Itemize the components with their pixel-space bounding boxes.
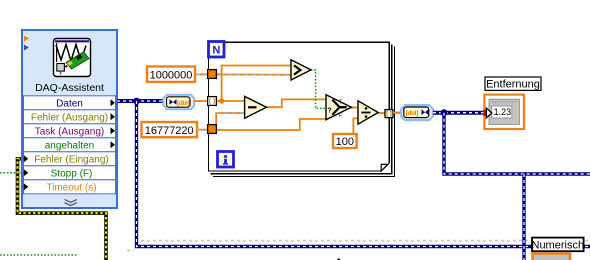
wire boolean Stopp input [0, 172, 23, 174]
Convert from Dynamic Data node [163, 95, 194, 109]
DAQ-Assistent express VI [22, 30, 117, 208]
Entfernung indicator terminal [484, 95, 524, 129]
for loop frame [209, 42, 390, 171]
Convert to Dynamic Data node [401, 105, 433, 120]
svg-text:Numerisch: Numerisch [532, 239, 585, 251]
terminal row Fehler (Eingang) [24, 152, 116, 166]
DAQ-Assistent label [35, 82, 104, 94]
wire tunnel to convert node [393, 112, 402, 114]
divide node [358, 101, 378, 124]
svg-text:Fehler (Eingang): Fehler (Eingang) [34, 155, 108, 166]
junction Daten wire [133, 98, 140, 105]
wire data to greater upper input [222, 66, 291, 102]
tunnel middle data input [208, 97, 217, 106]
svg-text:Entfernung: Entfernung [486, 79, 540, 91]
wire dynamic data branch right [444, 113, 590, 174]
svg-text:100: 100 [336, 136, 354, 148]
svg-text:N: N [212, 45, 220, 57]
terminal row Stopp (F) [24, 166, 116, 180]
wire double converter to tunnel [194, 100, 208, 102]
svg-text:?: ? [327, 107, 331, 114]
for loop count terminal N [209, 42, 225, 58]
for loop stacked sheet borders [211, 44, 395, 176]
svg-text:Stopp (F): Stopp (F) [51, 169, 93, 180]
wire subtract to select T input [266, 99, 326, 107]
select node [326, 95, 351, 120]
svg-text:16777220: 16777220 [145, 125, 194, 137]
svg-text:1000000: 1000000 [150, 70, 193, 82]
wire divide to tunnel [378, 112, 385, 114]
wire dynamic data Daten to converter [117, 99, 164, 103]
wire boolean greater to select [311, 70, 326, 108]
junction output wire [441, 109, 448, 116]
Entfernung terminal input arrow [486, 108, 491, 118]
wire boolean bottom-left [0, 254, 78, 256]
svg-text:1.23: 1.23 [494, 107, 512, 117]
terminal row Task (Ausgang) [24, 124, 116, 138]
wire dynamic data branch to Numerisch [137, 101, 590, 247]
terminal row Daten [24, 96, 116, 110]
wire tunnel to subtract lower input [216, 113, 245, 125]
wire 1000000 to greater node [195, 73, 291, 76]
svg-text:angehalten: angehalten [45, 141, 95, 152]
DAQ-Assistent icon [54, 39, 91, 77]
express VI input arrow blue [24, 45, 29, 51]
express VI expand chevron [65, 200, 77, 206]
svg-text:[dbl]: [dbl] [406, 110, 418, 117]
svg-text:[dbl]: [dbl] [177, 100, 189, 107]
wire dynamic data to Entfernung [433, 111, 484, 115]
greater than node [291, 60, 311, 80]
wire tunnel to select F input [216, 119, 326, 130]
svg-text:Task (Ausgang): Task (Ausgang) [35, 127, 104, 138]
constant 1000000 [147, 67, 195, 82]
selection ants bottom wire [127, 241, 590, 251]
for loop iteration terminal i [218, 152, 234, 168]
Numerisch label [532, 238, 585, 252]
tunnel top input [208, 70, 217, 79]
constant 100 [333, 134, 357, 148]
wire dynamic data down to Numerisch terminal [522, 174, 525, 260]
svg-text:Fehler (Ausgang): Fehler (Ausgang) [31, 113, 108, 124]
clipped object bottom edge [337, 259, 340, 260]
tunnel output right [385, 110, 393, 118]
svg-text:Timeout (s): Timeout (s) [46, 183, 96, 194]
wire 100 to divide [353, 118, 358, 134]
express VI input arrow orange [24, 36, 29, 42]
tunnel bottom input [208, 125, 217, 134]
Numerisch indicator terminal [533, 253, 570, 260]
wire select to divide [351, 107, 358, 109]
Entfernung label [485, 77, 541, 91]
wire tunnel to subtract [216, 100, 244, 102]
terminal row Fehler (Ausgang) [24, 110, 116, 124]
svg-text:Daten: Daten [56, 99, 83, 110]
junction data orange [219, 98, 224, 103]
terminal row angehalten [24, 138, 116, 152]
coercion dot red [483, 110, 486, 116]
constant 16777220 [142, 122, 198, 137]
svg-text:DAQ-Assistent: DAQ-Assistent [35, 82, 104, 94]
terminal row Timeout (s) [24, 180, 116, 194]
subtract node [245, 96, 267, 118]
wire error cluster from Fehler (Eingang) [18, 159, 107, 260]
wire 16777220 to tunnel [197, 129, 208, 131]
